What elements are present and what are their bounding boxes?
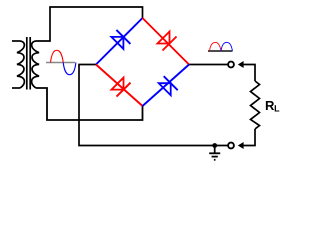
wire secondary top to bridge top node: [36, 7, 143, 41]
resistor RL zigzag: [251, 81, 260, 129]
diode D3 red, bridge left-bottom side (anode left node, cathode bottom node): [96, 65, 143, 107]
transformer T1 primary top lead: [12, 40, 20, 42]
ground symbol: [209, 146, 220, 160]
wire bridge left node to bottom rail: [79, 65, 228, 146]
output minus terminal circle: [228, 143, 234, 149]
wire load resistor bottom to output minus terminal: [243, 129, 255, 146]
wire secondary bottom to bridge bottom node: [36, 88, 143, 120]
output plus terminal circle: [228, 62, 234, 68]
junction dot at ground tap: [212, 143, 217, 148]
transformer T1 primary bottom lead: [12, 87, 20, 89]
output minus arrow: [238, 142, 244, 149]
ac input sine symbol baseline: [46, 62, 75, 64]
output waveform red hump: [210, 42, 221, 51]
output waveform blue hump: [221, 42, 232, 51]
output plus arrow: [238, 61, 244, 68]
transformer T1 secondary winding: [32, 41, 39, 88]
output waveform symbol baseline: [208, 50, 233, 52]
ac input sine negative half (blue): [63, 63, 76, 75]
diode D1 blue, bridge left-top side (anode left node, cathode top node): [96, 18, 143, 65]
ac input sine positive half (red): [51, 50, 64, 62]
transformer T1 primary winding: [17, 41, 24, 88]
diode D4 blue, bridge bottom-right side (anode bottom node, cathode right node): [143, 65, 190, 107]
transformer T1 core: [27, 37, 30, 90]
wire output plus terminal to load resistor top: [243, 65, 255, 82]
diode D2 red, bridge top-right side (anode top node, cathode right node): [143, 18, 190, 65]
wire bridge right node to output plus terminal: [189, 64, 228, 66]
label RL: [266, 101, 274, 110]
